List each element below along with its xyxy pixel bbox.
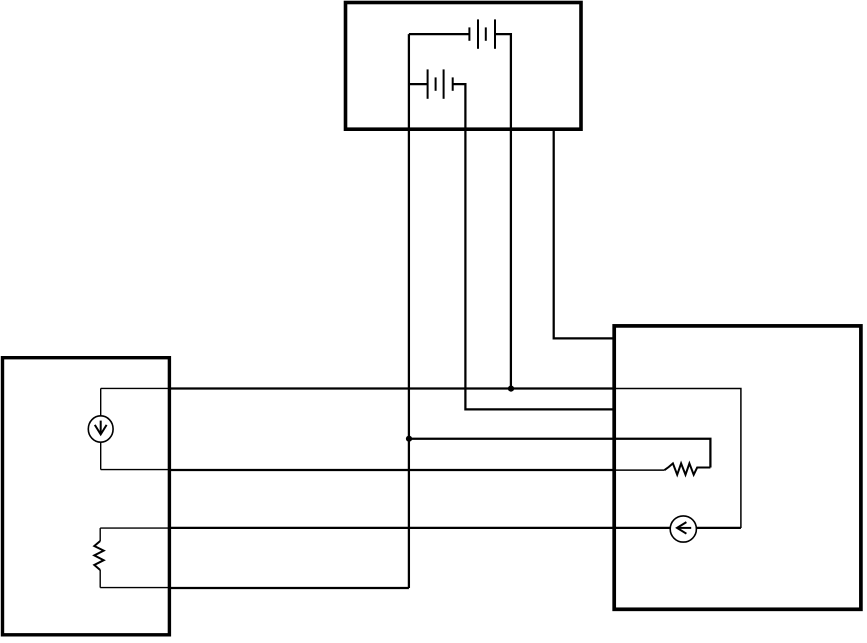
wire net y470 thin lead to resistor R2 inside right box <box>615 469 665 471</box>
wire from junction x409 y438 right into right box to step <box>409 439 711 468</box>
wire battery V1 left lead <box>409 33 470 35</box>
wire battery V2 right lead down and into right box at y409 <box>453 84 615 409</box>
wire bottom horizontal from left box to bus x409 <box>170 587 409 589</box>
battery V2 <box>428 69 453 98</box>
resistor R2 horizontal zigzag in right box <box>665 463 711 474</box>
battery V1 <box>469 19 495 48</box>
resistor R1 vertical zigzag in left box <box>94 541 103 570</box>
wire battery V1 right lead down to node at y388 <box>495 34 511 388</box>
wire long horizontal net y528 from left box resistor to right box source <box>169 527 741 529</box>
current source I2 arrow (left) <box>677 522 691 534</box>
right subcircuit box <box>614 326 861 609</box>
wire long vertical bus x409 from battery V1 lead down to bottom line <box>408 34 410 588</box>
wire from top box bottom down and into right box at y338 <box>554 130 615 339</box>
current source I2 circle in right box <box>670 516 696 542</box>
wire net y388 thin segment inside left box <box>101 387 169 389</box>
wire net y528 thin segment inside left box <box>100 527 169 529</box>
top subcircuit box <box>346 3 582 130</box>
left subcircuit box <box>3 358 170 635</box>
junction dot at x409 y438 <box>406 436 412 442</box>
wire long horizontal net y470 between boxes <box>169 469 616 471</box>
wire net y470 thin segment inside left box <box>101 469 169 471</box>
wire net y388 thin segment inside right box and down right side loop <box>615 389 741 529</box>
wire bottom horizontal thin segment inside left box <box>100 587 170 589</box>
left box current source I1 leads (thin vertical through circle) <box>100 388 102 469</box>
resistor R1 bottom lead in left box <box>99 570 101 588</box>
current source I1 arrow (down) <box>95 421 107 435</box>
wire long horizontal net y388 between boxes <box>169 387 616 389</box>
wire battery V2 left lead <box>409 83 428 85</box>
junction dot at x511 y388 <box>508 386 514 392</box>
current source I1 circle <box>88 416 113 442</box>
resistor R1 top lead in left box <box>99 528 101 541</box>
